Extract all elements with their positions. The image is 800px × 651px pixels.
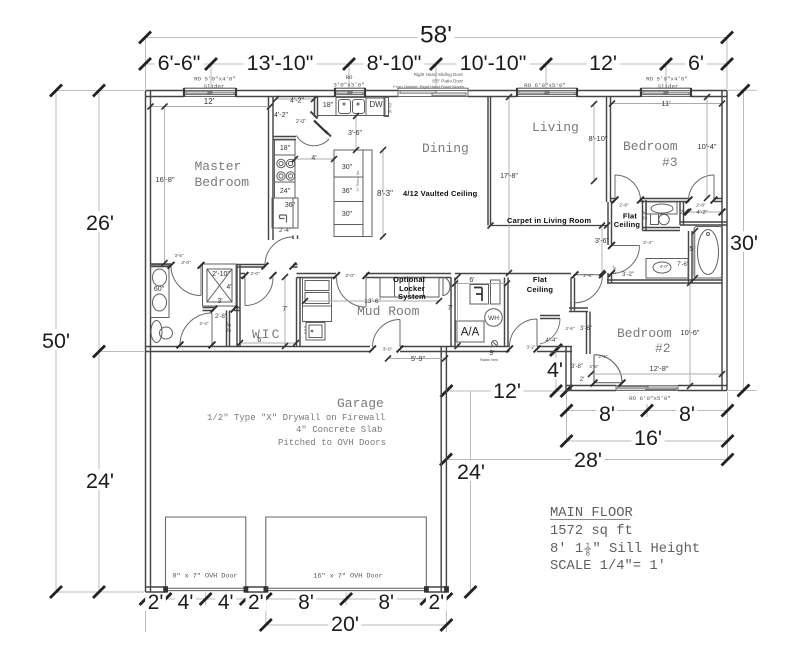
svg-text:Bedroom: Bedroom: [623, 139, 678, 154]
svg-text:Bedroom: Bedroom: [195, 175, 250, 190]
garage dim label 4' at 225.7: [215, 591, 236, 611]
svg-text:2'-10": 2'-10": [212, 271, 230, 278]
range column: [275, 140, 296, 198]
wall living/bedroom3 divider: [607, 97, 611, 203]
svg-text:Garage: Garage: [337, 396, 384, 411]
svg-text:Ceiling: Ceiling: [614, 220, 641, 229]
svg-text:10'-10": 10'-10": [460, 51, 527, 75]
svg-text:18": 18": [323, 102, 334, 109]
air handler A/A: [456, 321, 484, 342]
door bath2: [612, 246, 640, 274]
svg-text:28': 28': [574, 448, 602, 472]
kitchen top counter line: [318, 97, 389, 117]
svg-text:8'0" Patio Door: 8'0" Patio Door: [432, 79, 463, 84]
door bedroom3 closet: [689, 175, 715, 201]
door master bedroom to hall (arc): [265, 237, 293, 265]
dim 6ft wic: [240, 342, 296, 344]
label 16': [631, 426, 664, 447]
svg-text:2'-4": 2'-4": [279, 228, 291, 234]
closet stub wall in hall: [540, 316, 560, 319]
svg-text:17'-8": 17'-8": [500, 173, 518, 180]
svg-text:3'-0": 3'-0": [250, 271, 260, 277]
garage dim label 2' at 436.3: [426, 591, 447, 611]
interior dim ticks: [148, 104, 154, 110]
svg-text:6': 6': [257, 337, 262, 344]
door toilet room: [180, 313, 212, 345]
top 58 ft dimension line: [145, 38, 727, 90]
svg-text:3'-0": 3'-0": [383, 347, 393, 353]
garage dim label 2' at 255.8: [245, 591, 266, 611]
svg-text:Ceiling: Ceiling: [527, 285, 554, 294]
svg-text:3': 3': [550, 352, 554, 358]
svg-text:2'-6": 2'-6": [590, 364, 599, 369]
svg-text:3': 3': [217, 298, 222, 305]
svg-text:2'-6": 2'-6": [696, 203, 706, 209]
svg-text:4'-0": 4'-0": [660, 264, 669, 269]
svg-text:4': 4': [547, 358, 563, 382]
svg-text:4'-2": 4'-2": [697, 210, 708, 216]
svg-text:4'-4": 4'-4": [546, 338, 558, 344]
svg-text:2': 2': [248, 591, 264, 614]
door pantry corner: [297, 136, 330, 146]
cooktop burners: [277, 159, 285, 167]
bath1 west wall: [643, 200, 647, 231]
svg-text:26': 26': [86, 211, 114, 235]
pantry walls: [315, 97, 318, 118]
svg-text:Carpet in Living Room: Carpet in Living Room: [507, 216, 591, 225]
svg-text:16': 16': [634, 426, 662, 450]
svg-text:RO: RO: [346, 74, 353, 81]
svg-text:4'-2": 4'-2": [274, 112, 288, 119]
svg-text:9': 9': [489, 350, 494, 357]
24 ft right vertical dimension line: [470, 391, 472, 592]
svg-text:4': 4': [218, 591, 234, 614]
dim 10-6 bedroom2: [689, 283, 691, 386]
svg-text:18": 18": [280, 145, 291, 152]
utility top wall + left/right walls: [451, 278, 455, 347]
svg-text:2'-6": 2'-6": [583, 273, 593, 279]
label 12' top: [586, 51, 619, 72]
12 ft dimension line: [447, 390, 567, 392]
svg-text:RO 6'0"x5'0": RO 6'0"x5'0": [629, 395, 671, 402]
svg-text:30': 30': [730, 231, 758, 255]
label 4' step: [544, 358, 565, 379]
svg-text:8': 8': [599, 402, 615, 426]
svg-text:2': 2': [680, 210, 684, 216]
svg-text:8' 1: 8' 1: [550, 541, 583, 557]
svg-text:3'0"x3'6": 3'0"x3'6": [333, 82, 364, 89]
svg-text:System: System: [398, 292, 426, 301]
dim 7ft wic: [284, 277, 286, 346]
svg-text:4': 4': [311, 155, 316, 162]
svg-text:A/A: A/A: [461, 327, 480, 339]
patio sliding door: [398, 88, 468, 96]
svg-text:36": 36": [285, 202, 296, 209]
bath2 / bedroom2 divider wall: [607, 280, 722, 283]
svg-text:30": 30": [342, 164, 353, 171]
window master slider RO 5x4: [184, 88, 236, 96]
window bedroom2 RO 6x5: [616, 386, 678, 391]
svg-text:36": 36": [342, 188, 353, 195]
door hall closet: [540, 319, 560, 345]
door bedroom2 north: [575, 275, 603, 303]
tub: [694, 227, 723, 279]
dim 10-4 bedroom3: [706, 97, 708, 198]
svg-text:8: 8: [586, 551, 591, 559]
svg-text:RO 5'0"x4'0": RO 5'0"x4'0": [194, 76, 236, 83]
shower: [203, 264, 237, 306]
dim 11ft bedroom3: [612, 103, 722, 105]
svg-text:4': 4': [178, 591, 194, 614]
svg-text:5': 5': [689, 246, 694, 253]
door mudroom west: [337, 278, 367, 308]
window living RO 6x5: [517, 88, 577, 96]
svg-text:MAIN FLOOR: MAIN FLOOR: [550, 506, 633, 521]
28 ft dimension line: [446, 459, 728, 461]
dim 17-8 living: [508, 97, 510, 273]
svg-text:11': 11': [661, 99, 671, 108]
svg-text:12'-8": 12'-8": [649, 364, 668, 373]
svg-text:2': 2': [428, 591, 444, 614]
oven box: [272, 198, 298, 228]
svg-text:2'-8": 2'-8": [215, 314, 227, 320]
svg-text:Slider: Slider: [204, 83, 225, 90]
svg-text:58': 58': [420, 22, 452, 49]
garage door jambs: [163, 586, 168, 592]
4 ft step dimension line: [555, 348, 557, 391]
svg-text:2'-6": 2'-6": [619, 203, 629, 209]
svg-text:Radon Vent: Radon Vent: [480, 358, 498, 362]
door jamb ticks: [168, 262, 175, 269]
svg-text:8" x 7" OVH Door: 8" x 7" OVH Door: [172, 573, 237, 581]
dim 3-6 hall: [601, 226, 603, 274]
garage bottom wall: [146, 587, 166, 592]
master bath vanity: [151, 265, 170, 318]
water heater WH: [485, 309, 503, 327]
garage dim label 2' at 155.5: [145, 591, 166, 611]
washer dryer stack: [303, 278, 332, 306]
wall dining/living divider: [488, 97, 491, 226]
svg-text:30": 30": [342, 211, 353, 218]
bedroom2 bottom exterior wall: [566, 386, 616, 391]
svg-text:2'-8": 2'-8": [643, 210, 649, 220]
svg-text:13'-6": 13'-6": [364, 298, 381, 305]
exterior right wall: [722, 91, 727, 391]
dim 13-6 mudroom: [305, 300, 439, 302]
linen closet walls: [680, 202, 727, 225]
svg-text:Optional: Optional: [393, 275, 425, 284]
door garage to mudroom: [373, 320, 401, 348]
svg-text:24" Raised Bar: 24" Raised Bar: [356, 169, 360, 191]
svg-text:SCALE 1/4"= 1': SCALE 1/4"= 1': [550, 558, 666, 574]
dim 4ft kitchen: [295, 158, 334, 160]
garage dim label 4' at 185.5: [175, 591, 196, 611]
hall south wall by master bedroom door: [236, 265, 298, 268]
svg-text:Flat: Flat: [533, 275, 547, 284]
svg-text:7': 7': [447, 305, 452, 312]
label 8'-10: [363, 51, 424, 72]
svg-text:8'-3": 8'-3": [377, 189, 393, 198]
svg-text:8': 8': [378, 591, 394, 614]
label 28': [571, 448, 604, 469]
bedroom3 south wall: [611, 199, 616, 202]
dishwasher DW: [366, 98, 385, 116]
window kitchen RO 3x3.6: [335, 88, 365, 96]
label 20': [328, 612, 361, 633]
door WIC: [245, 278, 273, 306]
WIC right wall: [297, 278, 301, 347]
svg-text:Bedroom: Bedroom: [617, 326, 672, 341]
furnace F: [470, 285, 489, 305]
label 30': [727, 231, 760, 252]
label 24' right: [454, 460, 487, 481]
svg-text:8': 8': [679, 402, 695, 426]
label 50': [39, 329, 72, 350]
mudroom / back hall north wall: [240, 274, 245, 278]
svg-text:2'-0": 2'-0": [296, 119, 306, 125]
kitchen sink: [336, 98, 366, 116]
svg-text:60": 60": [154, 286, 165, 293]
svg-text:" Sill Height: " Sill Height: [593, 541, 701, 557]
svg-text:2': 2': [580, 377, 584, 383]
svg-text:4'-2": 4'-2": [290, 98, 304, 105]
svg-text:1'-6": 1'-6": [612, 265, 617, 274]
laundry sink: [306, 323, 325, 341]
island: [334, 150, 372, 237]
svg-text:2': 2': [148, 591, 164, 614]
svg-text:3'-8": 3'-8": [227, 322, 233, 332]
dim 8-3 island: [382, 150, 384, 237]
svg-text:24': 24': [457, 460, 485, 484]
label 8' a: [596, 402, 617, 423]
svg-text:3'-2": 3'-2": [527, 345, 536, 350]
dim 4-2 pantry top: [276, 98, 314, 100]
svg-text:#3: #3: [662, 155, 678, 170]
bath middle wall: [643, 228, 681, 231]
svg-text:3'-6": 3'-6": [595, 238, 609, 245]
exterior top wall: [146, 91, 185, 97]
svg-text:2'-6": 2'-6": [599, 354, 608, 359]
door bedroom2 entry: [594, 355, 622, 383]
bench by utility: [443, 278, 450, 296]
svg-text:From Outside: Right Hand Panel: From Outside: Right Hand Panel Moves: [393, 84, 464, 89]
door bedroom3 a: [615, 175, 641, 201]
window bedroom3 slider RO 5x4: [641, 88, 691, 96]
svg-text:WH: WH: [488, 315, 499, 322]
garage dim label 8' at 306: [296, 591, 317, 611]
svg-text:3'-2": 3'-2": [622, 272, 634, 278]
label 24' left: [83, 469, 116, 490]
svg-text:3'-8": 3'-8": [571, 364, 583, 370]
svg-text:4/12 Vaulted Ceiling: 4/12 Vaulted Ceiling: [403, 189, 478, 198]
dim 5ft tub: [694, 231, 696, 278]
dim 12-8 bedroom2: [591, 373, 722, 375]
label 6' top: [685, 51, 706, 72]
16 ft dimension line: [567, 440, 728, 442]
label 12' mid: [490, 379, 523, 400]
dim 6ft utility: [455, 283, 507, 285]
radon vent: [492, 341, 498, 347]
svg-text:DW: DW: [369, 100, 383, 109]
svg-text:#2: #2: [655, 341, 671, 356]
dim 3-6 kitchen: [355, 116, 357, 150]
svg-text:13'-10": 13'-10": [247, 51, 314, 75]
svg-text:16" x 7" OVH Door: 16" x 7" OVH Door: [313, 573, 382, 581]
svg-text:RO 6'0"x5'0": RO 6'0"x5'0": [524, 82, 566, 89]
dim 12ft master: [151, 106, 271, 108]
dim 8-10 living: [593, 104, 595, 181]
tub room west wall: [689, 231, 693, 283]
svg-text:Living: Living: [532, 120, 579, 135]
dim 5-9: [388, 358, 445, 360]
left 50 ft dimension line: [56, 91, 144, 593]
label 10'-10: [456, 51, 529, 72]
svg-text:2'-6": 2'-6": [566, 326, 575, 331]
label 6'-6: [154, 51, 203, 72]
garage door 16x7 outline: [266, 517, 427, 588]
bath2 vanity: [646, 259, 688, 279]
bath1 vanity and toilet: [647, 202, 678, 214]
svg-text:12': 12': [493, 379, 521, 403]
master bath north wall: [151, 264, 172, 267]
left 26/24 ft dimension line: [99, 91, 144, 593]
label 58': [417, 21, 454, 44]
lockers: [380, 278, 439, 298]
svg-text:Pitched to OVH Doors: Pitched to OVH Doors: [278, 438, 386, 448]
svg-text:10'-4": 10'-4": [697, 142, 716, 151]
door garage to hall: [510, 319, 538, 347]
svg-text:Mud Room: Mud Room: [357, 304, 420, 319]
bedroom2 top-left wall: [571, 278, 575, 311]
wall under shower: [203, 308, 241, 311]
svg-text:Right Hand Sliding Door: Right Hand Sliding Door: [414, 72, 464, 77]
svg-text:10'-6": 10'-6": [680, 328, 699, 337]
svg-text:8': 8': [298, 591, 314, 614]
svg-text:8'-10": 8'-10": [588, 134, 607, 143]
svg-text:50': 50': [42, 329, 70, 353]
garage dim label 8' at 386.2: [376, 591, 397, 611]
refrigerator: [384, 98, 389, 117]
master toilet: [151, 321, 162, 343]
top segment dimension line: [145, 63, 727, 65]
hall/bath2 west wall: [608, 202, 612, 283]
dim 4-2 linen: [686, 211, 722, 213]
right 30 ft dimension line: [728, 90, 757, 390]
carpet line living: [491, 225, 608, 227]
svg-text:5'-9": 5'-9": [411, 356, 425, 363]
label 13'-10: [243, 51, 316, 72]
svg-text:24': 24': [86, 469, 114, 493]
svg-text:24": 24": [280, 188, 291, 195]
svg-text:20': 20': [331, 612, 359, 636]
WIC west chase walls: [227, 264, 241, 347]
svg-text:3'-6": 3'-6": [348, 130, 362, 137]
svg-text:2'-4": 2'-4": [200, 321, 209, 326]
garage door 8x7 outline: [166, 517, 246, 588]
8+8 ft dimension line: [567, 392, 728, 460]
middle wall: master/garage divider: [146, 347, 371, 352]
svg-text:Dining: Dining: [422, 141, 469, 156]
garage bottom dimension line: [146, 598, 447, 600]
label 26': [83, 211, 116, 232]
svg-text:4" Concrete Slab: 4" Concrete Slab: [296, 425, 382, 435]
svg-text:1/2" Type "X" Drywall on Firew: 1/2" Type "X" Drywall on Firewall: [207, 413, 385, 423]
svg-text:2'-4": 2'-4": [643, 240, 653, 246]
svg-text:7'-6": 7'-6": [677, 262, 689, 268]
svg-text:6': 6': [688, 51, 704, 75]
svg-text:16'-8": 16'-8": [155, 175, 174, 184]
garage right wall: [441, 347, 446, 593]
label 8' b: [676, 402, 697, 423]
dim 7ft utility: [457, 277, 459, 346]
svg-text:Master: Master: [195, 159, 242, 174]
svg-text:3'-6": 3'-6": [580, 326, 592, 332]
svg-text:3'-0": 3'-0": [345, 273, 355, 279]
svg-text:Slider: Slider: [658, 83, 679, 90]
door master bath: [171, 266, 201, 296]
svg-text:12': 12': [589, 51, 617, 75]
svg-text:12': 12': [204, 97, 215, 106]
exterior left wall: [146, 91, 151, 593]
svg-text:3'-6": 3'-6": [175, 253, 184, 258]
garage 20 ft dimension line: [266, 624, 447, 626]
svg-text:6': 6': [469, 277, 474, 284]
svg-text:6'-6": 6'-6": [158, 51, 201, 75]
svg-text:4': 4': [226, 284, 231, 291]
svg-text:7': 7': [282, 306, 287, 313]
step wall x566: [566, 347, 571, 391]
dim 16-8 master: [164, 107, 166, 264]
svg-text:3'-0": 3'-0": [181, 260, 191, 266]
svg-text:1572 sq ft: 1572 sq ft: [550, 523, 633, 539]
svg-text:RO 5'0"x4'0": RO 5'0"x4'0": [646, 76, 688, 83]
wall master bedroom / kitchen divider: [269, 97, 274, 241]
svg-text:36" Ref: 36" Ref: [389, 103, 393, 114]
